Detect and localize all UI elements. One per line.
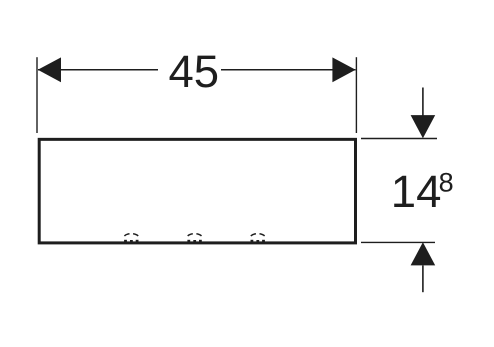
svg-text:14: 14 xyxy=(391,166,442,217)
svg-text:45: 45 xyxy=(168,46,219,97)
svg-text:8: 8 xyxy=(439,167,454,197)
